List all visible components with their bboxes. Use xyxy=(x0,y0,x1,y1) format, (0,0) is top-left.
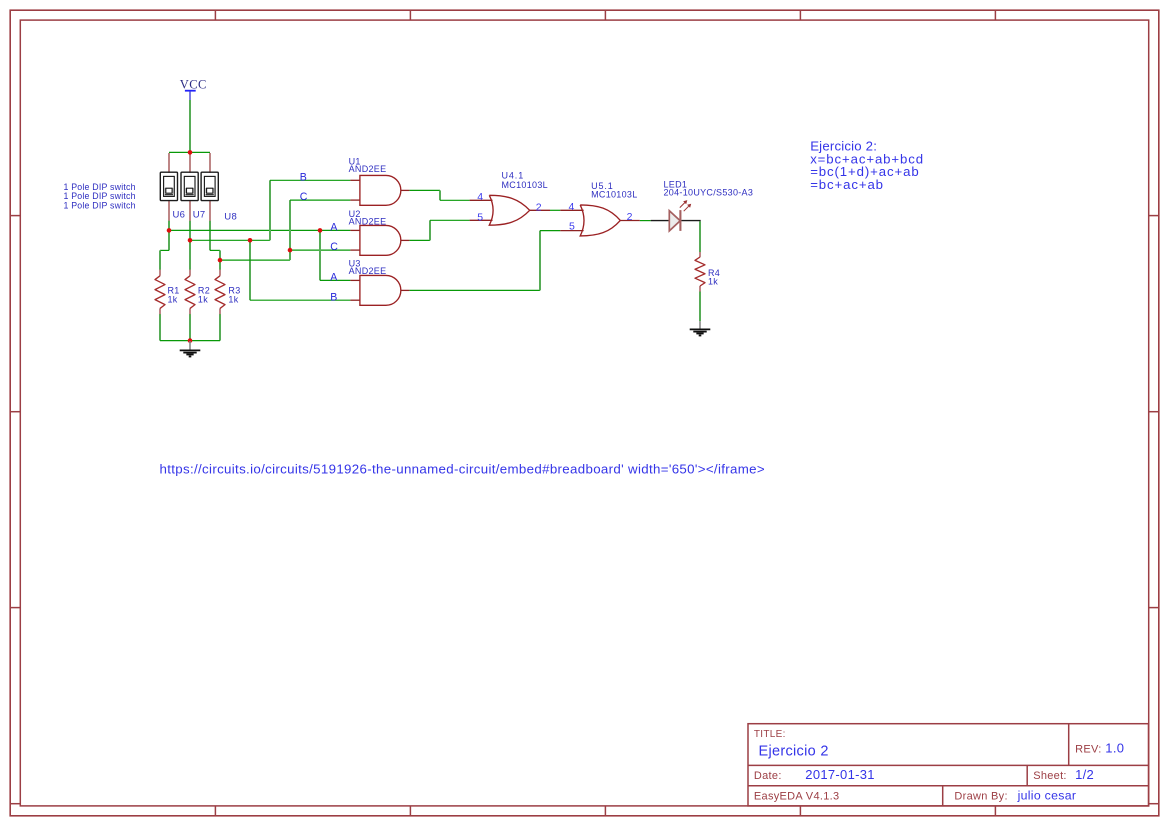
svg-text:https://circuits.io/circuits/5: https://circuits.io/circuits/5191926-the… xyxy=(160,461,765,476)
svg-text:204-10UYC/S530-A3: 204-10UYC/S530-A3 xyxy=(664,188,754,198)
svg-text:U4.1: U4.1 xyxy=(502,170,525,180)
svg-text:Date:: Date: xyxy=(754,770,782,782)
svg-text:julio cesar: julio cesar xyxy=(1017,789,1077,803)
svg-text:5: 5 xyxy=(477,212,483,224)
svg-text:=bc+ac+ab: =bc+ac+ab xyxy=(810,177,884,192)
svg-text:1 Pole DIP switch: 1 Pole DIP switch xyxy=(64,201,136,211)
svg-text:1.0: 1.0 xyxy=(1105,740,1124,755)
svg-text:TITLE:: TITLE: xyxy=(754,729,786,740)
svg-text:U7: U7 xyxy=(193,210,206,221)
svg-text:C: C xyxy=(330,241,338,253)
svg-text:REV:: REV: xyxy=(1075,743,1101,755)
svg-text:MC10103L: MC10103L xyxy=(502,180,548,190)
svg-text:1k: 1k xyxy=(168,294,178,304)
svg-text:B: B xyxy=(330,291,337,303)
svg-text:U8: U8 xyxy=(224,212,237,223)
svg-text:4: 4 xyxy=(569,201,575,213)
svg-text:5: 5 xyxy=(569,221,575,233)
svg-text:A: A xyxy=(330,272,338,284)
svg-text:B: B xyxy=(300,172,307,184)
svg-text:Sheet:: Sheet: xyxy=(1033,770,1067,782)
svg-text:Drawn By:: Drawn By: xyxy=(954,791,1007,803)
svg-text:1k: 1k xyxy=(198,294,208,304)
svg-text:C: C xyxy=(300,191,308,203)
svg-text:Ejercicio 2: Ejercicio 2 xyxy=(759,744,829,760)
svg-text:VCC: VCC xyxy=(180,78,207,92)
svg-text:1k: 1k xyxy=(708,276,718,286)
svg-text:MC10103L: MC10103L xyxy=(591,189,637,199)
svg-text:4: 4 xyxy=(477,191,483,203)
svg-text:AND2EE: AND2EE xyxy=(349,164,387,174)
svg-text:A: A xyxy=(330,222,338,234)
svg-text:2: 2 xyxy=(627,211,633,223)
svg-text:AND2EE: AND2EE xyxy=(349,266,387,276)
svg-text:AND2EE: AND2EE xyxy=(349,216,387,226)
svg-text:1k: 1k xyxy=(228,294,238,304)
svg-text:2: 2 xyxy=(536,201,542,213)
svg-text:U6: U6 xyxy=(173,210,186,221)
svg-text:2017-01-31: 2017-01-31 xyxy=(805,767,875,782)
svg-text:1/2: 1/2 xyxy=(1075,767,1094,782)
svg-text:EasyEDA V4.1.3: EasyEDA V4.1.3 xyxy=(754,791,840,803)
